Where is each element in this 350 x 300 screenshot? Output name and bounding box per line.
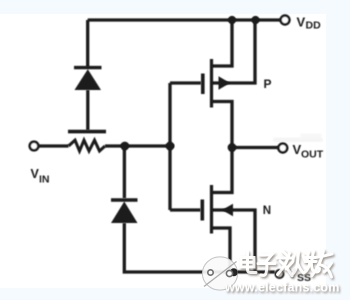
input terminal VIN [30, 142, 39, 151]
svg-text:P: P [264, 77, 272, 91]
terminal VOUT [278, 144, 287, 153]
watermark logo ellipse [202, 257, 237, 290]
junction dot input node [120, 142, 129, 151]
junction dot VOUT node [228, 143, 237, 152]
junction dot N source at VSS rail [230, 268, 238, 276]
diode D2 (to VSS) [111, 200, 138, 223]
terminal VSS [276, 270, 284, 278]
svg-text:V: V [297, 14, 306, 29]
char shao [293, 252, 320, 275]
wire: input to resistor [39, 144, 69, 147]
wire: VOUT node to terminal [232, 146, 279, 149]
wire: VOUT node down to N drain stub [212, 148, 233, 193]
svg-text:DD: DD [306, 20, 322, 32]
diode D1 (to VDD) [74, 68, 102, 90]
wire: N gate lead [170, 208, 201, 211]
label VSS [288, 266, 311, 284]
watermark chinese text dianzifashaoyou [241, 251, 332, 278]
watermark logo node right [226, 270, 232, 276]
wire: P drain stub to VOUT node [212, 102, 233, 148]
char fa [277, 252, 293, 277]
terminal VDD [281, 16, 290, 25]
wire: P bulk stub to VDD [212, 20, 256, 83]
wire: gate vertical bus [168, 83, 171, 210]
wire: P gate lead [170, 81, 201, 84]
wire: VDD top rail [88, 18, 281, 21]
label VIN [31, 167, 50, 185]
wire: N bulk stub to VSS [212, 210, 256, 272]
junction dot VDD rail right [251, 16, 259, 24]
wire: N source stub to VSS [212, 228, 231, 272]
junction dot gate bus [166, 142, 175, 151]
wire: D2 anode stem and VSS bottom rail [124, 223, 274, 272]
faint ghost watermark above VOUT label [273, 134, 323, 143]
wire: resistor to gate junction [105, 144, 174, 147]
wire: left vertical from rail to D1 [86, 20, 89, 67]
watermark logo node left [208, 270, 213, 275]
svg-text:IN: IN [39, 173, 50, 185]
char dian [241, 252, 256, 273]
char zi [258, 255, 275, 276]
svg-text:www.elecfans.com: www.elecfans.com [224, 281, 340, 295]
transistor N (NMOS) [202, 185, 233, 234]
label VOUT [293, 142, 324, 160]
transistor P (PMOS) [203, 59, 230, 108]
junction dot VDD rail left [228, 16, 236, 24]
char you [312, 251, 332, 278]
svg-text:N: N [263, 205, 271, 217]
wire: node to D2 [123, 146, 126, 198]
wire: P source stub to VDD [212, 20, 233, 66]
watermark logo diagonal link [204, 262, 237, 287]
label VDD [297, 14, 322, 31]
svg-text:OUT: OUT [301, 149, 324, 161]
wire: D1 anode stem [86, 90, 89, 130]
resistor R (input series) [69, 140, 106, 151]
distributed diode anode bar over resistor [68, 130, 106, 134]
